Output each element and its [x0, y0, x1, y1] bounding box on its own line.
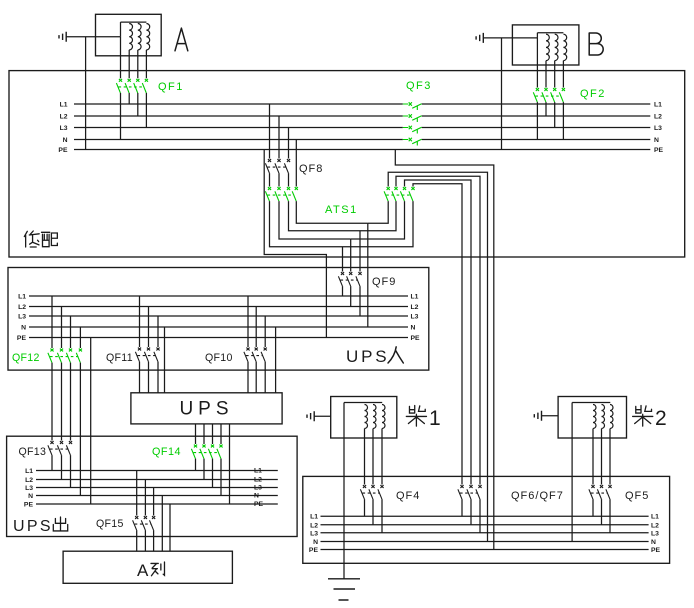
svg-text:L2: L2: [310, 522, 318, 529]
wire: [360, 201, 396, 231]
wire: [364, 429, 366, 485]
wire (N feed to UPS-out): [79, 363, 81, 496]
wire: [264, 316, 266, 347]
wire: [212, 424, 214, 444]
wire (QF2 pole4 to N bus): [562, 102, 564, 139]
wire: [51, 296, 53, 348]
wire: [351, 201, 405, 239]
svg-text:L3: L3: [25, 485, 33, 492]
svg-text:PE: PE: [24, 502, 34, 509]
node L3 bus (generator board): [321, 532, 649, 534]
generator transformer 柴1: [331, 397, 397, 439]
wire: [203, 459, 205, 480]
svg-text:PE: PE: [309, 547, 319, 554]
wire: [364, 499, 366, 516]
wire (PE feed to UPS-out): [90, 338, 92, 505]
A-row load box (A列): [63, 551, 232, 583]
wire: [203, 424, 205, 444]
wire: [70, 316, 72, 348]
svg-text:QF6/QF7: QF6/QF7: [511, 490, 564, 502]
wire: [601, 499, 603, 525]
node L2 bus (generator board): [321, 524, 649, 526]
svg-text:QF14: QF14: [152, 446, 181, 458]
wire (L1 to QF8 pole1): [269, 104, 271, 159]
wire (N bypass of QF8): [295, 140, 297, 187]
svg-text:UPS: UPS: [346, 347, 389, 366]
node L2 bus (UPS input board): [29, 306, 408, 308]
node PE bus (UPS output board): [36, 503, 278, 505]
wire: [314, 415, 331, 417]
breaker QF11 (3-pole): [135, 348, 159, 362]
wire: [148, 307, 150, 348]
svg-text:QF13: QF13: [19, 446, 47, 458]
wire: [269, 173, 271, 186]
breaker QF14 (4-pole): [191, 445, 222, 459]
wire: [70, 455, 72, 487]
wire: [545, 61, 547, 88]
wire (柴1 neutral to earth): [343, 403, 345, 579]
svg-text:L3: L3: [310, 530, 318, 537]
wire: [264, 362, 266, 393]
wire: [342, 286, 344, 296]
svg-text:N: N: [63, 137, 68, 144]
wire: [289, 201, 361, 231]
svg-text:1: 1: [429, 407, 441, 430]
wire (N to UPS-in N bus): [367, 223, 369, 327]
node L1 bus (generator board): [321, 515, 649, 517]
svg-text:L3: L3: [60, 125, 68, 132]
svg-text:QF11: QF11: [106, 352, 133, 364]
wire: [278, 173, 280, 186]
wire: [359, 231, 361, 272]
svg-text:L2: L2: [254, 476, 262, 483]
label 柴1: [406, 406, 426, 427]
ground symbol (generator 2 frame): [534, 411, 541, 421]
wire: [79, 327, 81, 348]
wire: [144, 530, 146, 551]
transformer A: [96, 14, 162, 56]
wire: [381, 499, 383, 533]
wire (柴2 neutral to N bus): [571, 403, 573, 542]
svg-text:2: 2: [655, 407, 667, 430]
breaker QF2 (4-pole): [533, 88, 565, 102]
svg-text:N: N: [254, 492, 259, 499]
svg-text:PE: PE: [58, 147, 68, 154]
node PE bus (generator board): [321, 549, 649, 551]
svg-text:L2: L2: [654, 114, 662, 121]
wire: [368, 201, 388, 223]
ground symbol (generator 1 frame): [307, 411, 314, 421]
wire: [601, 429, 603, 485]
wire: [136, 530, 138, 551]
svg-text:PE: PE: [651, 547, 661, 554]
svg-text:QF3: QF3: [406, 80, 432, 92]
label B: [589, 33, 603, 55]
wire: [255, 307, 257, 348]
svg-text:QF4: QF4: [396, 490, 420, 502]
wire (N bypass): [275, 327, 277, 393]
ground symbol (transformer A neutral): [59, 32, 66, 42]
node L3 bus (low-voltage): [74, 127, 403, 129]
wire (PE to UPS-in PE bus): [264, 150, 326, 338]
wire (L3 to QF8 pole3): [288, 128, 290, 159]
generator transformer 柴2: [558, 397, 626, 439]
wire: [153, 530, 155, 551]
svg-text:A: A: [137, 561, 149, 580]
label 低配: [24, 231, 39, 247]
svg-text:L3: L3: [654, 125, 662, 132]
wire: [592, 499, 594, 516]
label A: [175, 28, 188, 51]
wire: [128, 50, 130, 78]
node L3 bus (UPS input board): [29, 315, 408, 317]
wire: [136, 471, 138, 516]
wire: [51, 455, 53, 470]
svg-text:L3: L3: [18, 314, 26, 321]
node L2 bus (low-voltage): [74, 115, 403, 117]
wire: [350, 239, 352, 272]
node N bus (UPS output board): [36, 495, 278, 497]
node L1 bus (low-voltage): [74, 103, 403, 105]
wire: [592, 429, 594, 485]
wire: [247, 296, 249, 347]
wire: [296, 201, 368, 223]
svg-text:PE: PE: [654, 147, 664, 154]
wire: [144, 480, 146, 516]
UPS output switchboard box (UPS出): [7, 436, 298, 536]
svg-text:L1: L1: [651, 514, 659, 521]
node L2 bus (UPS output board): [36, 479, 278, 481]
wire: [139, 362, 141, 393]
wire (QF2 pole2 to L2 bus): [545, 102, 547, 116]
node N bus (generator board): [321, 541, 649, 543]
wire: [562, 61, 564, 88]
wire: [212, 459, 214, 488]
wire: [270, 201, 343, 247]
svg-text:L1: L1: [60, 102, 68, 109]
node N bus (low-voltage): [74, 139, 403, 141]
breaker QF5 (3-pole): [589, 485, 612, 499]
svg-text:N: N: [21, 325, 26, 332]
node L1 bus (UPS input board): [29, 295, 408, 297]
wire (N to A-row): [161, 496, 163, 552]
wire: [609, 429, 611, 485]
svg-text:PE: PE: [17, 335, 27, 342]
node PE bus (low-voltage): [74, 149, 650, 151]
wire: [388, 172, 487, 541]
svg-text:QF10: QF10: [205, 352, 233, 364]
svg-text:UPS: UPS: [13, 518, 53, 535]
svg-text:N: N: [28, 493, 33, 500]
svg-text:L3: L3: [254, 484, 262, 491]
svg-text:L3: L3: [411, 314, 419, 321]
label 柴2: [633, 406, 653, 427]
wire (B neutral to QF2): [536, 38, 538, 88]
wire (QF1 pole4 to L3 bus): [145, 93, 147, 128]
wire: [396, 176, 480, 484]
low-voltage switchboard box (低配): [9, 71, 685, 257]
wire (A neutral to QF1): [120, 37, 122, 79]
svg-text:L2: L2: [18, 304, 26, 311]
node PE bus (UPS input board): [29, 337, 408, 339]
wire (QF1 pole2 to L1 bus): [128, 93, 130, 104]
node L3 bus (UPS output board): [36, 487, 278, 489]
wire: [137, 50, 139, 78]
wire: [372, 499, 374, 525]
breaker QF9 (3-pole): [338, 272, 361, 286]
svg-text:N: N: [411, 325, 416, 332]
wire: [139, 296, 141, 347]
svg-text:UPS: UPS: [179, 399, 233, 420]
svg-text:L2: L2: [651, 522, 659, 529]
wire: [145, 50, 147, 78]
wire: [153, 488, 155, 516]
wire (UPS PE output): [229, 424, 231, 504]
svg-text:L1: L1: [310, 514, 318, 521]
earth electrode symbol: [328, 579, 360, 600]
wire: [413, 184, 462, 485]
wire: [51, 363, 53, 441]
svg-text:L2: L2: [411, 304, 419, 311]
svg-text:QF5: QF5: [625, 490, 649, 502]
svg-text:L1: L1: [25, 468, 33, 475]
wire: [157, 316, 159, 347]
UPS unit box: [131, 393, 282, 424]
wire: [195, 424, 197, 444]
node L1 bus (UPS output board): [36, 470, 278, 472]
wire: [343, 201, 414, 247]
UPS input switchboard box (UPS入): [8, 268, 429, 371]
wire: [288, 173, 290, 186]
wire PE drop from transformer A ground to PE bus: [85, 37, 87, 150]
breaker QF4 (3-pole): [360, 485, 383, 499]
wire: [342, 247, 344, 272]
svg-text:QF8: QF8: [299, 163, 323, 175]
wire: [66, 36, 120, 38]
wire: [195, 459, 197, 471]
wire: [405, 180, 472, 485]
wire: [483, 37, 537, 39]
wire: [220, 459, 222, 496]
svg-text:L1: L1: [411, 294, 419, 301]
breaker QF8 (3-pole): [265, 159, 290, 173]
wire: [461, 499, 463, 516]
ATS1 standby-side breaker (4-pole): [384, 187, 415, 201]
wire: [157, 362, 159, 393]
wire: [255, 362, 257, 393]
breaker QF12 (4-pole): [48, 349, 82, 363]
wire: [350, 286, 352, 306]
ground symbol (transformer B neutral): [476, 33, 483, 43]
breaker QF6/QF7 (3-pole): [458, 485, 482, 499]
wire: [220, 424, 222, 444]
wire: [61, 455, 63, 479]
wire (QF2 pole3 to L3 bus): [554, 102, 556, 127]
svg-text:N: N: [313, 539, 318, 546]
wire: [70, 363, 72, 441]
svg-text:QF1: QF1: [158, 81, 184, 93]
svg-text:L2: L2: [60, 114, 68, 121]
wire (PE riser to generator box): [395, 150, 494, 550]
wire: [61, 307, 63, 349]
svg-text:QF12: QF12: [12, 352, 40, 364]
svg-text:QF2: QF2: [580, 88, 606, 100]
wire (QF2 pole1 to N bus): [536, 102, 538, 139]
wire: [148, 362, 150, 393]
wire: [247, 362, 249, 393]
svg-text:L1: L1: [18, 294, 26, 301]
svg-text:PE: PE: [411, 335, 421, 342]
breaker QF13 (3-pole): [48, 441, 72, 455]
ATS1 normal-side breaker (4-pole): [265, 187, 298, 201]
wire: [381, 429, 383, 485]
wire: [279, 201, 351, 239]
wire: [479, 499, 481, 533]
wire (N bypass): [164, 327, 166, 393]
generator switchboard box: [303, 476, 670, 563]
wire (L2 to QF8 pole2): [278, 116, 280, 159]
wire: [372, 429, 374, 485]
transformer B: [512, 25, 579, 65]
svg-text:L2: L2: [25, 477, 33, 484]
svg-text:QF9: QF9: [372, 276, 396, 288]
wire (QF1 pole3 to L2 bus): [137, 93, 139, 116]
node N bus (UPS input board): [29, 326, 408, 328]
svg-text:QF15: QF15: [96, 518, 124, 530]
svg-text:N: N: [651, 539, 656, 546]
svg-text:N: N: [654, 137, 659, 144]
wire: [554, 61, 556, 88]
svg-text:L3: L3: [651, 530, 659, 537]
wire: [470, 499, 472, 525]
svg-text:ATS1: ATS1: [325, 204, 358, 216]
svg-text:L1: L1: [254, 467, 262, 474]
breaker QF10 (3-pole): [244, 348, 267, 362]
wire: [542, 415, 559, 417]
wire: [61, 363, 63, 441]
breaker QF1 (4-pole): [116, 79, 148, 93]
wire: [359, 286, 361, 316]
wire (QF1 pole1 to N bus): [120, 93, 122, 140]
breaker QF15 (3-pole): [133, 516, 156, 530]
svg-text:PE: PE: [254, 501, 264, 508]
wire: [609, 499, 611, 533]
breaker QF3 (bus tie, 4-pole horizontal): [403, 102, 422, 145]
wire PE drop from transformer B ground to PE bus: [501, 38, 503, 150]
svg-text:L1: L1: [654, 102, 662, 109]
wire (PE to A-row): [169, 504, 171, 551]
